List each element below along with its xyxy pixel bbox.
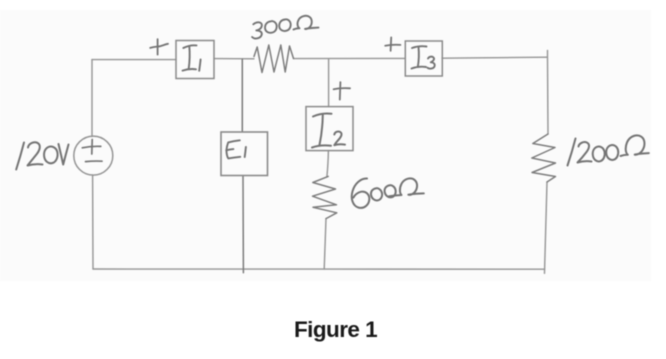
plus near I3: [385, 37, 400, 50]
resistor R 1200ohm zigzag: [532, 134, 556, 182]
wire I1 to resistor: [214, 58, 254, 60]
photo paper area: [0, 10, 651, 281]
wire left vertical lower: [92, 175, 94, 269]
wire I2 bottom to 600ohm: [327, 151, 329, 177]
wire I3 to right corner: [442, 57, 547, 58]
label 1200ohm: [568, 135, 649, 165]
ammeter I3 box: [405, 41, 442, 76]
label 600ohm: [352, 178, 424, 207]
resistor R 300ohm zigzag: [254, 45, 294, 73]
wire bottom horizontal: [93, 268, 545, 270]
label 120V: [16, 142, 68, 169]
wire resistor to I3: [294, 57, 406, 59]
label I1: [183, 45, 201, 70]
resistor R 600ohm zigzag: [313, 176, 337, 218]
wire right vertical lower: [545, 182, 548, 273]
source minus sign: [86, 160, 103, 163]
ammeter E1 box: [221, 132, 268, 176]
ammeter I1 box: [176, 41, 214, 79]
ammeter I2 box: [306, 107, 353, 151]
label 300ohm: [252, 16, 318, 39]
wire right vertical upper: [547, 51, 550, 135]
voltage source circle: [74, 136, 113, 175]
source plus sign: [82, 140, 101, 155]
plus near I1: [150, 39, 168, 54]
wire left vertical upper: [91, 60, 93, 137]
plus near I2: [334, 82, 350, 99]
node junction E1 branch: [241, 59, 243, 132]
svg-text:Figure 1: Figure 1: [294, 317, 377, 342]
node junction I2 branch: [328, 59, 330, 107]
label I2: [312, 113, 345, 147]
wire top-left horizontal: [92, 59, 176, 61]
wire 600ohm to bottom rail: [324, 219, 326, 270]
label I3: [412, 46, 435, 68]
wire E1 bottom to bottom rail: [242, 176, 244, 273]
label E1: [226, 140, 246, 158]
